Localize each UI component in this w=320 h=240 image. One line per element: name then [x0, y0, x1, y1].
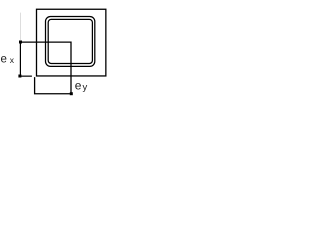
- faint extension line above node P1: [20, 13, 22, 41]
- svg-text:e: e: [0, 54, 6, 66]
- square tube inner wall (rounded): [48, 19, 92, 63]
- background: [0, 0, 115, 100]
- node P2 (bottom edge level marker): [18, 75, 21, 78]
- wire: short line from P2 toward square edge: [20, 75, 32, 77]
- label ey: [75, 79, 88, 93]
- square tube outer wall (rounded): [46, 17, 95, 67]
- node P3 (below shape marker): [70, 92, 73, 95]
- svg-text:x: x: [10, 55, 15, 65]
- node P1 (centroid axis left end marker): [19, 41, 22, 44]
- wire: ex dimension vertical line P1 to P2: [19, 42, 21, 76]
- outer square (pocket outline): [37, 9, 106, 76]
- label ex: [0, 54, 14, 66]
- svg-text:e: e: [75, 79, 82, 93]
- svg-text:y: y: [83, 82, 88, 93]
- wire: centroid axis polyline from P1 right then down to P3 then left and up: [20, 42, 71, 94]
